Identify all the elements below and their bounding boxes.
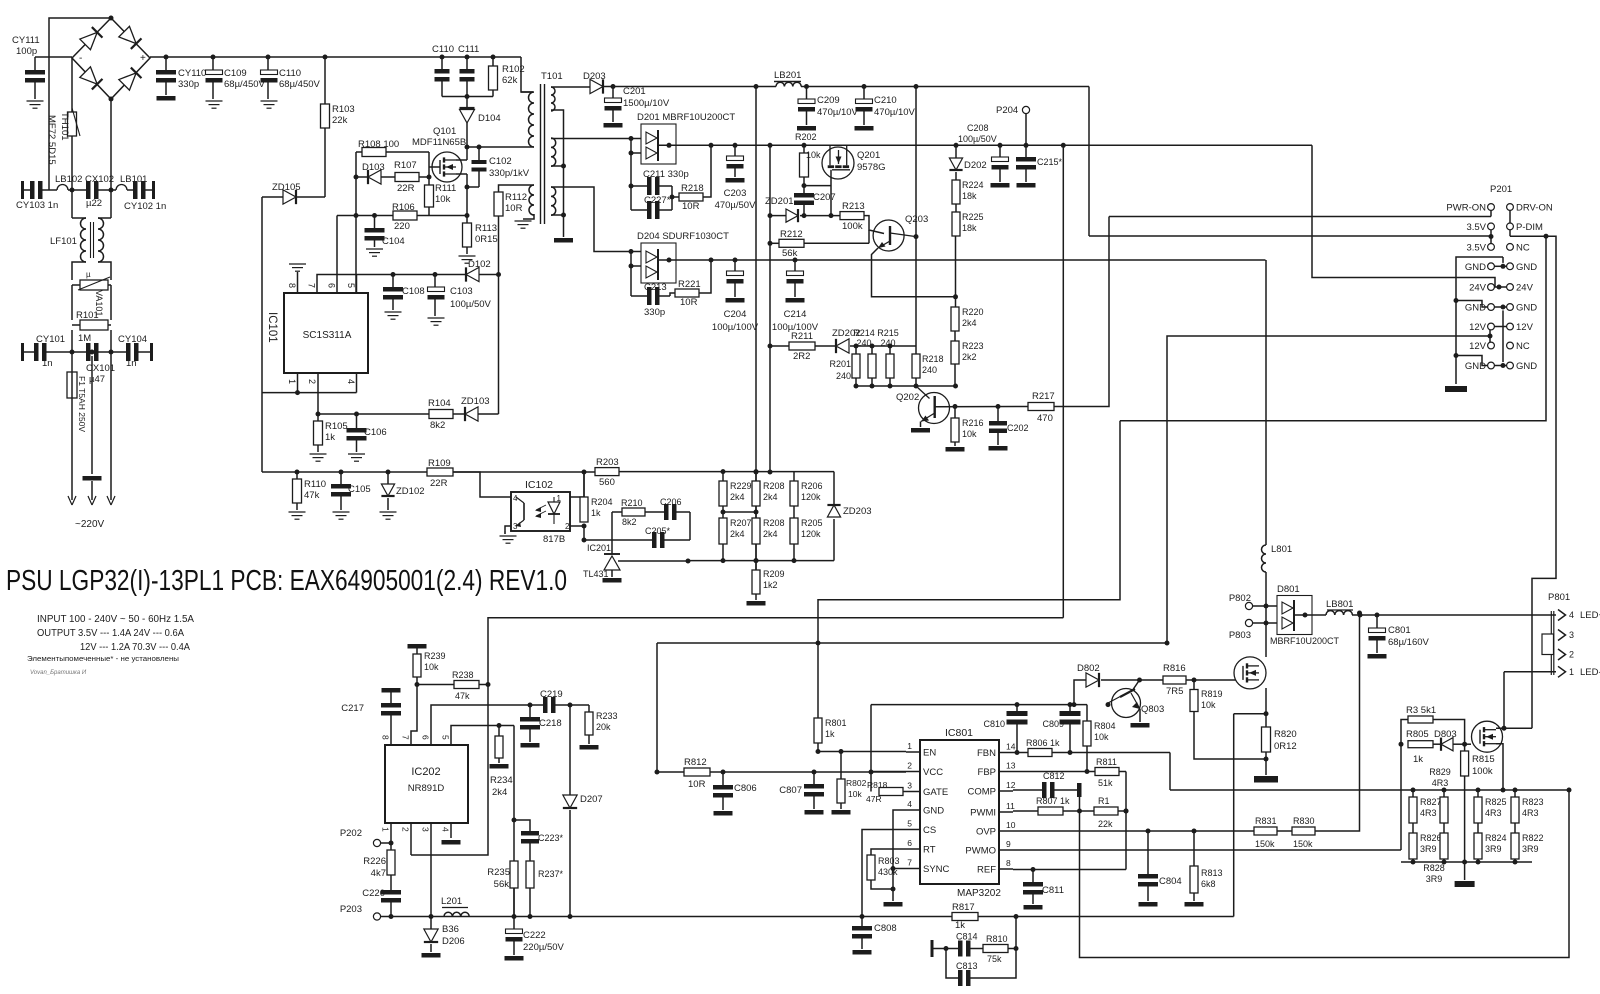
- svg-text:4: 4: [1569, 610, 1574, 620]
- svg-text:120k: 120k: [801, 529, 821, 539]
- svg-text:24V: 24V: [1516, 283, 1534, 294]
- svg-text:ZD203: ZD203: [843, 506, 872, 517]
- svg-text:100p: 100p: [16, 46, 37, 57]
- svg-text:8: 8: [287, 283, 297, 288]
- svg-text:1n: 1n: [126, 358, 137, 369]
- svg-text:R823: R823: [1522, 797, 1544, 807]
- svg-text:C209: C209: [817, 95, 840, 106]
- svg-text:CY101: CY101: [36, 334, 65, 345]
- svg-text:2R2: 2R2: [793, 351, 810, 362]
- svg-text:470µ/10V: 470µ/10V: [874, 107, 916, 118]
- svg-text:REF: REF: [977, 865, 996, 876]
- svg-text:R813: R813: [1201, 868, 1223, 878]
- svg-text:R1: R1: [1098, 796, 1110, 806]
- svg-text:R827: R827: [1420, 797, 1442, 807]
- svg-text:C104: C104: [382, 236, 405, 247]
- svg-text:2k4: 2k4: [730, 492, 745, 502]
- svg-text:R209: R209: [763, 569, 785, 579]
- svg-text:14: 14: [1006, 742, 1016, 752]
- svg-text:R217: R217: [1032, 391, 1055, 402]
- svg-text:R208: R208: [763, 481, 785, 491]
- svg-text:2k4: 2k4: [962, 318, 977, 328]
- svg-text:560: 560: [599, 477, 615, 488]
- svg-text:10k: 10k: [848, 789, 862, 799]
- svg-text:6: 6: [327, 283, 337, 288]
- svg-text:R807 1k: R807 1k: [1036, 796, 1070, 806]
- svg-text:IC102: IC102: [525, 479, 553, 491]
- svg-text:VCC: VCC: [923, 767, 943, 778]
- svg-text:EN: EN: [923, 748, 936, 759]
- svg-text:240: 240: [856, 338, 871, 348]
- svg-text:P801: P801: [1548, 592, 1570, 603]
- svg-text:1k: 1k: [1413, 754, 1423, 765]
- svg-text:R805: R805: [1406, 729, 1429, 740]
- svg-text:P203: P203: [340, 904, 362, 915]
- svg-text:C217: C217: [341, 703, 364, 714]
- svg-text:µ22: µ22: [86, 198, 102, 209]
- svg-text:2k4: 2k4: [730, 529, 745, 539]
- svg-text:3R9: 3R9: [1522, 844, 1539, 854]
- svg-text:L201: L201: [441, 896, 462, 907]
- svg-text:R803: R803: [878, 856, 900, 866]
- svg-text:T101: T101: [541, 71, 563, 82]
- svg-text:C203: C203: [724, 188, 747, 199]
- svg-text:100k: 100k: [1472, 766, 1493, 777]
- svg-text:R108 100: R108 100: [358, 139, 399, 150]
- svg-text:C110: C110: [432, 44, 454, 55]
- svg-text:330p/1kV: 330p/1kV: [489, 168, 530, 179]
- svg-text:R812: R812: [684, 757, 707, 768]
- svg-text:R214: R214: [853, 328, 875, 338]
- svg-text:C109: C109: [224, 68, 247, 79]
- svg-text:220µ/50V: 220µ/50V: [523, 942, 565, 953]
- svg-text:R806 1k: R806 1k: [1026, 738, 1060, 748]
- svg-text:12V: 12V: [1469, 341, 1487, 352]
- svg-text:150k: 150k: [1293, 839, 1313, 849]
- svg-text:R238: R238: [452, 670, 474, 680]
- svg-text:4R3: 4R3: [1522, 808, 1539, 818]
- svg-text:56k: 56k: [782, 248, 798, 259]
- svg-text:R106: R106: [392, 202, 415, 213]
- svg-text:CY111: CY111: [12, 35, 40, 46]
- svg-text:R104: R104: [428, 398, 451, 409]
- svg-text:P803: P803: [1229, 630, 1251, 641]
- svg-text:NC: NC: [1516, 341, 1530, 352]
- svg-text:R113: R113: [475, 223, 497, 234]
- svg-text:CY104: CY104: [118, 334, 147, 345]
- svg-text:MDF11N65B: MDF11N65B: [412, 137, 466, 148]
- svg-text:Q201: Q201: [857, 150, 880, 161]
- svg-text:R229: R229: [730, 481, 752, 491]
- svg-text:LB201: LB201: [774, 70, 801, 81]
- svg-text:R215: R215: [877, 328, 899, 338]
- svg-text:C807: C807: [779, 785, 802, 796]
- svg-text:C801: C801: [1388, 625, 1411, 636]
- svg-text:NC: NC: [1516, 242, 1530, 253]
- svg-text:CS: CS: [923, 825, 936, 836]
- svg-text:C806: C806: [734, 783, 757, 794]
- svg-text:MF72 5D15: MF72 5D15: [46, 115, 57, 165]
- svg-text:LB101: LB101: [120, 174, 147, 185]
- svg-text:CY102 1n: CY102 1n: [124, 201, 166, 212]
- svg-text:3R9: 3R9: [1420, 844, 1437, 854]
- svg-text:4: 4: [907, 799, 912, 809]
- svg-text:GND: GND: [1516, 262, 1537, 273]
- svg-text:D802: D802: [1077, 663, 1100, 674]
- svg-text:C201: C201: [623, 86, 646, 97]
- svg-text:R819: R819: [1201, 689, 1223, 699]
- svg-text:ZD103: ZD103: [461, 396, 490, 407]
- svg-text:GND: GND: [923, 806, 944, 817]
- svg-text:D103: D103: [362, 162, 385, 173]
- svg-text:2k4: 2k4: [492, 787, 507, 798]
- svg-text:R825: R825: [1485, 797, 1507, 807]
- svg-text:~220V: ~220V: [75, 519, 105, 530]
- svg-text:R202: R202: [795, 132, 817, 142]
- svg-text:120k: 120k: [801, 492, 821, 502]
- svg-text:3: 3: [907, 781, 912, 791]
- svg-text:24V: 24V: [1469, 283, 1487, 294]
- svg-text:C206: C206: [660, 497, 682, 507]
- svg-text:R102: R102: [502, 64, 525, 75]
- svg-text:R101: R101: [76, 310, 99, 321]
- svg-text:TL431: TL431: [583, 569, 609, 579]
- svg-text:1: 1: [287, 379, 297, 384]
- svg-text:C108: C108: [402, 286, 425, 297]
- svg-text:Q202: Q202: [896, 392, 919, 403]
- svg-text:DRV-ON: DRV-ON: [1516, 203, 1553, 214]
- svg-text:IC201: IC201: [587, 543, 611, 553]
- svg-text:56k: 56k: [494, 879, 510, 890]
- svg-text:C204: C204: [724, 309, 747, 320]
- svg-text:22R: 22R: [430, 478, 448, 489]
- svg-text:817B: 817B: [543, 534, 565, 545]
- svg-text:R239: R239: [424, 651, 446, 661]
- svg-text:10k: 10k: [435, 194, 451, 205]
- svg-text:R235: R235: [487, 867, 510, 878]
- svg-text:51k: 51k: [1098, 778, 1113, 788]
- svg-text:CY110: CY110: [178, 68, 206, 79]
- svg-text:R226: R226: [363, 856, 386, 867]
- svg-text:C106: C106: [364, 427, 387, 438]
- svg-text:12V: 12V: [1469, 322, 1487, 333]
- svg-text:OUTPUT 3.5V --- 1.4A 24V ---: OUTPUT 3.5V --- 1.4A 24V --- 0.6A: [37, 628, 184, 639]
- svg-text:62k: 62k: [502, 75, 518, 86]
- svg-text:C214: C214: [784, 309, 807, 320]
- svg-text:12V --- 1.2A 70.3V --- 0.4A: 12V --- 1.2A 70.3V --- 0.4A: [80, 642, 190, 653]
- svg-text:7: 7: [907, 858, 912, 868]
- svg-text:1M: 1M: [78, 333, 91, 344]
- svg-text:C809: C809: [1042, 719, 1064, 729]
- svg-text:IC801: IC801: [945, 727, 973, 739]
- svg-text:FBN: FBN: [977, 748, 996, 759]
- svg-text:P802: P802: [1229, 593, 1251, 604]
- svg-text:R801: R801: [825, 718, 847, 728]
- svg-text:22k: 22k: [332, 115, 348, 126]
- svg-text:10R: 10R: [680, 297, 698, 308]
- svg-text:PWR-ON: PWR-ON: [1446, 203, 1486, 214]
- svg-text:R820: R820: [1274, 729, 1297, 740]
- svg-text:R218: R218: [681, 183, 704, 194]
- svg-text:SC1S311A: SC1S311A: [303, 330, 352, 341]
- svg-text:6: 6: [421, 735, 431, 740]
- svg-text:+: +: [140, 53, 146, 64]
- svg-text:1: 1: [557, 494, 562, 503]
- svg-text:R234: R234: [490, 775, 513, 786]
- svg-text:10k: 10k: [1094, 732, 1109, 742]
- svg-text:R201: R201: [829, 359, 851, 369]
- svg-text:TH101: TH101: [59, 112, 70, 141]
- svg-text:INPUT 100 - 240V ~ 50 - 60Hz 1: INPUT 100 - 240V ~ 50 - 60Hz 1.5A: [37, 614, 194, 625]
- svg-text:D104: D104: [478, 113, 501, 124]
- svg-text:330p: 330p: [178, 79, 199, 90]
- svg-text:240: 240: [836, 371, 851, 381]
- svg-text:1k: 1k: [955, 920, 965, 931]
- svg-text:1k2: 1k2: [763, 580, 778, 590]
- svg-text:R109: R109: [428, 458, 451, 469]
- svg-text:3: 3: [1569, 630, 1574, 640]
- svg-text:R818: R818: [867, 780, 888, 790]
- svg-text:D206: D206: [442, 936, 465, 947]
- svg-text:R802: R802: [846, 778, 867, 788]
- svg-text:R110: R110: [304, 479, 326, 490]
- svg-text:C105: C105: [348, 484, 371, 495]
- svg-text:150k: 150k: [1255, 839, 1275, 849]
- svg-text:C207: C207: [813, 192, 836, 203]
- svg-text:R826: R826: [1420, 833, 1442, 843]
- svg-text:R804: R804: [1094, 721, 1116, 731]
- svg-text:R221: R221: [678, 279, 701, 290]
- svg-text:10k: 10k: [1201, 700, 1216, 710]
- svg-text:R830: R830: [1293, 816, 1315, 826]
- svg-text:11: 11: [1006, 801, 1015, 811]
- svg-text:68µ/450V: 68µ/450V: [279, 79, 321, 90]
- svg-text:R811: R811: [1096, 757, 1117, 767]
- svg-text:GND: GND: [1516, 303, 1537, 314]
- svg-text:430k: 430k: [878, 867, 898, 877]
- svg-text:10: 10: [1006, 820, 1016, 830]
- svg-text:PWMO: PWMO: [965, 846, 996, 857]
- svg-text:MAP3202: MAP3202: [957, 888, 1001, 899]
- svg-text:ZD102: ZD102: [396, 486, 425, 497]
- svg-text:1500µ/10V: 1500µ/10V: [623, 98, 670, 109]
- svg-text:R237*: R237*: [538, 869, 564, 879]
- svg-text:C218: C218: [539, 718, 562, 729]
- svg-text:GND: GND: [1465, 262, 1486, 273]
- svg-text:1k: 1k: [591, 508, 601, 518]
- svg-text:1: 1: [381, 827, 391, 832]
- svg-text:8k2: 8k2: [430, 420, 445, 431]
- svg-text:R218: R218: [922, 354, 944, 364]
- svg-text:20k: 20k: [596, 722, 611, 732]
- svg-text:470µ/50V: 470µ/50V: [715, 200, 757, 211]
- svg-text:R105: R105: [325, 421, 348, 432]
- svg-text:C222: C222: [523, 930, 546, 941]
- svg-text:SYNC: SYNC: [923, 864, 950, 875]
- svg-text:6: 6: [907, 838, 912, 848]
- svg-text:C811: C811: [1042, 885, 1064, 896]
- svg-text:2k4: 2k4: [763, 492, 778, 502]
- svg-text:9578G: 9578G: [857, 162, 886, 173]
- svg-text:100µ/50V: 100µ/50V: [958, 134, 997, 144]
- svg-text:LB801: LB801: [1326, 599, 1353, 610]
- svg-text:C812: C812: [1043, 771, 1065, 781]
- svg-text:8: 8: [1006, 858, 1011, 868]
- svg-text:10k: 10k: [806, 150, 821, 160]
- svg-text:9: 9: [1006, 839, 1011, 849]
- svg-text:R107: R107: [394, 160, 417, 171]
- svg-text:µ: µ: [86, 270, 91, 279]
- svg-text:R815: R815: [1472, 754, 1495, 765]
- svg-text:C814: C814: [956, 932, 978, 942]
- svg-text:47k: 47k: [455, 691, 470, 701]
- svg-text:R216: R216: [962, 418, 984, 428]
- svg-text:10R: 10R: [505, 203, 523, 214]
- svg-text:5: 5: [907, 819, 912, 829]
- svg-text:C103: C103: [450, 286, 473, 297]
- svg-text:C808: C808: [874, 923, 897, 934]
- svg-text:LED-: LED-: [1580, 667, 1600, 678]
- svg-text:2: 2: [565, 522, 570, 531]
- svg-text:470: 470: [1037, 413, 1053, 424]
- svg-text:2k4: 2k4: [763, 529, 778, 539]
- svg-text:47k: 47k: [304, 490, 320, 501]
- svg-text:LF101: LF101: [50, 236, 77, 247]
- svg-text:-: -: [79, 53, 82, 64]
- svg-text:IC101: IC101: [266, 312, 278, 343]
- svg-text:R225: R225: [962, 212, 984, 222]
- svg-text:R207: R207: [730, 518, 752, 528]
- svg-text:1: 1: [1569, 667, 1574, 677]
- svg-text:220: 220: [394, 221, 410, 232]
- svg-text:FBP: FBP: [978, 767, 996, 778]
- svg-text:68µ/450V: 68µ/450V: [224, 79, 266, 90]
- svg-text:C202: C202: [1007, 423, 1029, 433]
- svg-text:LED+: LED+: [1580, 610, 1600, 621]
- svg-text:P-DIM: P-DIM: [1516, 222, 1543, 233]
- svg-text:2: 2: [907, 761, 912, 771]
- svg-text:R829: R829: [1429, 767, 1451, 777]
- svg-text:3.5V: 3.5V: [1466, 222, 1486, 233]
- svg-text:R224: R224: [962, 180, 984, 190]
- svg-text:D204 SDURF1030CT: D204 SDURF1030CT: [637, 231, 729, 242]
- svg-text:75k: 75k: [987, 954, 1002, 964]
- svg-text:Элементыпомеченные* - не устан: Элементыпомеченные* - не установлены: [27, 656, 179, 663]
- svg-text:12: 12: [1006, 780, 1016, 790]
- svg-text:R220: R220: [962, 307, 984, 317]
- svg-text:2: 2: [401, 827, 411, 832]
- svg-text:22k: 22k: [1098, 819, 1113, 829]
- svg-text:PSU LGP32(I)-13PL1 PCB: EAX649: PSU LGP32(I)-13PL1 PCB: EAX64905001(2.4)…: [6, 565, 567, 597]
- svg-text:D801: D801: [1277, 584, 1300, 595]
- svg-text:GATE: GATE: [923, 787, 948, 798]
- svg-text:NR891D: NR891D: [408, 783, 445, 794]
- svg-text:P204: P204: [996, 105, 1018, 116]
- svg-text:1n: 1n: [42, 358, 53, 369]
- svg-text:47R: 47R: [866, 794, 882, 804]
- svg-text:P202: P202: [340, 828, 362, 839]
- svg-text:C205*: C205*: [645, 526, 671, 536]
- svg-text:R223: R223: [962, 341, 984, 351]
- svg-text:C208: C208: [967, 123, 989, 133]
- svg-text:100µ/50V: 100µ/50V: [450, 299, 492, 310]
- svg-text:D201 MBRF10U200CT: D201 MBRF10U200CT: [637, 112, 735, 123]
- svg-text:7: 7: [401, 735, 411, 740]
- svg-text:Vovan_Братишка И: Vovan_Братишка И: [30, 670, 87, 676]
- svg-text:CX102: CX102: [85, 174, 114, 185]
- svg-text:GND: GND: [1516, 361, 1537, 372]
- svg-text:C215*: C215*: [1037, 157, 1063, 167]
- svg-text:R203: R203: [596, 457, 619, 468]
- svg-text:R111: R111: [435, 183, 456, 194]
- svg-text:C210: C210: [874, 95, 897, 106]
- svg-text:ZD105: ZD105: [272, 182, 301, 193]
- svg-text:1k: 1k: [825, 729, 835, 739]
- svg-text:0R12: 0R12: [1274, 741, 1297, 752]
- svg-text:4R3: 4R3: [1485, 808, 1502, 818]
- svg-text:R204: R204: [591, 497, 613, 507]
- svg-text:1k: 1k: [325, 432, 335, 443]
- svg-text:10R: 10R: [688, 779, 706, 790]
- svg-text:C223*: C223*: [538, 833, 564, 843]
- svg-text:C220: C220: [362, 888, 385, 899]
- svg-text:GND: GND: [1465, 361, 1486, 372]
- svg-text:R831: R831: [1255, 816, 1277, 826]
- svg-text:10k: 10k: [962, 429, 977, 439]
- svg-text:5: 5: [346, 283, 356, 288]
- svg-text:CY103 1n: CY103 1n: [16, 200, 58, 211]
- svg-text:18k: 18k: [962, 191, 977, 201]
- svg-text:3R9: 3R9: [1485, 844, 1502, 854]
- svg-text:22R: 22R: [397, 183, 415, 194]
- svg-text:0R15: 0R15: [475, 234, 498, 245]
- svg-text:R208: R208: [763, 518, 785, 528]
- svg-text:13: 13: [1006, 761, 1016, 771]
- svg-text:R211: R211: [791, 331, 813, 342]
- svg-text:R205: R205: [801, 518, 823, 528]
- svg-text:IC202: IC202: [411, 766, 440, 778]
- svg-text:18k: 18k: [962, 223, 977, 233]
- svg-text:8k2: 8k2: [622, 517, 637, 527]
- svg-text:R212: R212: [780, 229, 803, 240]
- svg-text:D203: D203: [583, 71, 606, 82]
- svg-text:100k: 100k: [842, 221, 863, 232]
- svg-text:10k: 10k: [424, 662, 439, 672]
- svg-text:2: 2: [1569, 650, 1574, 660]
- svg-text:3: 3: [421, 827, 431, 832]
- svg-text:D207: D207: [580, 794, 603, 805]
- svg-text:4k7: 4k7: [371, 868, 386, 879]
- svg-text:R233: R233: [596, 711, 618, 721]
- svg-text:4: 4: [346, 379, 356, 384]
- svg-text:C110: C110: [279, 68, 301, 79]
- svg-text:COMP: COMP: [968, 787, 997, 798]
- svg-text:68µ/160V: 68µ/160V: [1388, 637, 1430, 648]
- svg-text:Q101: Q101: [433, 126, 456, 137]
- svg-text:10R: 10R: [682, 201, 700, 212]
- svg-text:R816: R816: [1163, 663, 1186, 674]
- svg-text:2: 2: [307, 379, 317, 384]
- svg-text:4: 4: [441, 827, 451, 832]
- svg-text:B36: B36: [442, 924, 459, 935]
- svg-text:R206: R206: [801, 481, 823, 491]
- svg-text:R213: R213: [842, 201, 865, 212]
- svg-text:R828: R828: [1423, 863, 1445, 873]
- svg-text:7R5: 7R5: [1166, 686, 1183, 697]
- svg-text:RT: RT: [923, 845, 936, 856]
- svg-text:2k2: 2k2: [962, 352, 977, 362]
- svg-text:240: 240: [922, 365, 937, 375]
